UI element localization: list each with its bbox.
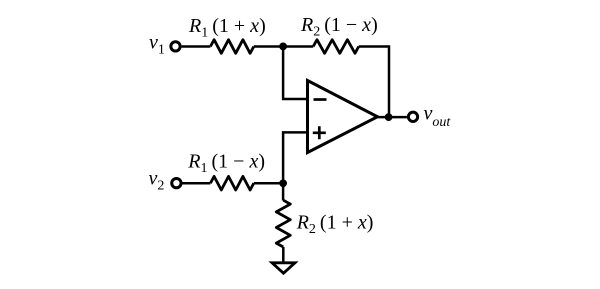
node B (junction dot) <box>279 179 287 187</box>
svg-text:R2 (1 + x): R2 (1 + x) <box>296 211 374 237</box>
wire non-inverting input to node B <box>283 132 307 183</box>
terminal vout <box>408 112 417 121</box>
ground <box>272 263 295 273</box>
wire v2 to R1b <box>183 182 211 185</box>
op-amp plus sign <box>313 126 326 139</box>
svg-text:R2 (1 − x): R2 (1 − x) <box>300 14 378 40</box>
svg-text:R1 (1 − x): R1 (1 − x) <box>187 151 265 177</box>
wire R1b to node B <box>254 182 283 185</box>
wire v1 to R1 <box>182 45 211 48</box>
wire feedback (R2 to output node) <box>359 47 389 118</box>
wire R2b to ground <box>282 247 285 262</box>
resistor R2 (1-x) <box>313 40 359 54</box>
terminal v2 <box>172 178 181 187</box>
wire node B to R2b <box>282 183 285 200</box>
op-amp minus sign <box>314 98 327 101</box>
resistor R1 (1+x) <box>210 40 253 54</box>
wire node A to inverting input <box>283 47 307 100</box>
node output (junction dot) <box>385 113 393 121</box>
wire op-amp output <box>377 116 407 119</box>
wire R1 to node A <box>254 45 283 48</box>
terminal v1 <box>171 42 180 51</box>
wire node A to R2 <box>283 45 313 48</box>
op-amp U1 <box>308 81 378 153</box>
resistor R2 (1+x) vertical <box>276 200 290 247</box>
svg-text:R1 (1 + x): R1 (1 + x) <box>188 15 266 41</box>
node A (junction dot) <box>279 43 287 51</box>
resistor R1 (1-x) <box>210 176 253 190</box>
